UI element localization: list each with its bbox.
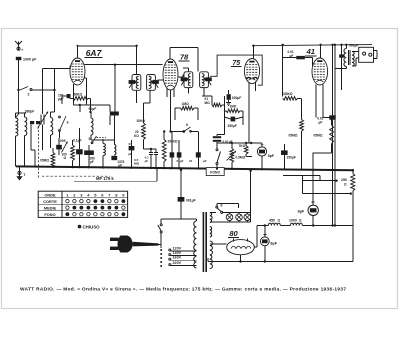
tube 6A7 bbox=[70, 58, 85, 85]
capacitor 0.02uF bias bbox=[329, 115, 335, 119]
svg-text:3: 3 bbox=[67, 121, 69, 125]
chassis bus bbox=[16, 166, 354, 170]
wire 6A7 top cap to IF bbox=[77, 46, 79, 58]
speaker bbox=[359, 47, 374, 62]
capacitor 1000pF antenna series bbox=[16, 57, 22, 60]
svg-text:220V: 220V bbox=[173, 261, 182, 265]
tube 41 bbox=[312, 58, 328, 85]
svg-text:78: 78 bbox=[180, 53, 189, 62]
resistor 1M ohm bbox=[181, 106, 195, 110]
svg-text:Ω: Ω bbox=[278, 219, 281, 223]
svg-text:µF: µF bbox=[90, 160, 94, 164]
capacitor 0.1uF pair a bbox=[170, 152, 175, 157]
svg-text:625KΩ: 625KΩ bbox=[282, 92, 293, 96]
svg-text:05MΩ: 05MΩ bbox=[314, 133, 323, 137]
IF transformer MF2 secondary bbox=[200, 72, 209, 88]
wire grid top line bbox=[43, 68, 71, 70]
tube 75 pins bbox=[248, 83, 250, 91]
svg-text:250µF: 250µF bbox=[228, 124, 237, 128]
resistor 0.5M volume bbox=[230, 149, 234, 163]
svg-text:140V: 140V bbox=[173, 251, 182, 255]
resistor 7K bbox=[244, 146, 248, 154]
svg-text:20KΩ: 20KΩ bbox=[137, 119, 146, 123]
capacitor 250uF right bbox=[281, 150, 288, 155]
resistor 0.5M screen bbox=[300, 120, 304, 132]
IF transformer MF1 secondary bbox=[147, 75, 156, 91]
svg-text:2: 2 bbox=[28, 92, 30, 96]
svg-text:120V: 120V bbox=[173, 246, 182, 250]
svg-text:.005: .005 bbox=[59, 139, 66, 143]
electrolytic 8uF output bbox=[308, 205, 318, 215]
antenna bbox=[18, 45, 20, 51]
top bus B+ bbox=[253, 45, 372, 46]
svg-text:FONO: FONO bbox=[44, 212, 55, 217]
switch 5 with dashes bbox=[91, 142, 93, 144]
tube 80 rectifier bbox=[227, 240, 255, 255]
resistor 50K bbox=[73, 97, 88, 101]
legend chiuso bbox=[78, 225, 82, 229]
wire MF1 secondary down bbox=[149, 90, 151, 103]
svg-text:Ω: Ω bbox=[299, 219, 302, 223]
svg-text:1MΩ: 1MΩ bbox=[182, 102, 190, 106]
capacitor padder 1375pF bbox=[111, 156, 117, 160]
trimmer caps 0.01uF stack bbox=[213, 136, 221, 138]
svg-text:500µF: 500µF bbox=[349, 43, 358, 47]
wire 75 cathode down bbox=[248, 91, 250, 143]
svg-text:50KΩ: 50KΩ bbox=[74, 92, 83, 96]
resistor 20K bbox=[142, 123, 146, 140]
wire 41 cathode bias bbox=[315, 85, 317, 118]
switch 2 bbox=[20, 87, 28, 91]
wire coil tops join bbox=[16, 112, 27, 114]
electrolytic 8uF input bbox=[260, 237, 269, 246]
svg-text:MF 175 k: MF 175 k bbox=[96, 176, 114, 181]
switch phono bbox=[216, 149, 218, 151]
capacitor 001uF mains bbox=[180, 170, 182, 197]
trimmer capacitor 380pF bbox=[40, 115, 42, 125]
wire 78 plate bbox=[178, 76, 183, 78]
svg-text:50µF: 50µF bbox=[89, 107, 97, 111]
svg-text:0.1µF: 0.1µF bbox=[73, 139, 82, 143]
wire MF2 tops bbox=[187, 68, 189, 72]
svg-text:KΩ: KΩ bbox=[134, 134, 139, 138]
capacitor 250uF bbox=[84, 150, 94, 155]
svg-text:1000: 1000 bbox=[289, 219, 297, 223]
diode plates 75 bbox=[247, 77, 251, 79]
capacitor plates pair bbox=[149, 151, 153, 153]
wire 80 output bbox=[254, 246, 257, 248]
svg-text:41: 41 bbox=[306, 47, 315, 56]
svg-text:6: 6 bbox=[186, 123, 188, 127]
resistor 1M diode load bbox=[226, 109, 240, 113]
capacitor 0.1uF osc bbox=[110, 112, 119, 116]
svg-text:Ω: Ω bbox=[344, 183, 347, 187]
svg-text:µF: µF bbox=[145, 159, 149, 163]
svg-text:8µF: 8µF bbox=[270, 242, 277, 246]
wire 80 center tap bbox=[240, 255, 242, 262]
svg-text:160V: 160V bbox=[173, 256, 182, 260]
capacitor 200uF bbox=[227, 94, 231, 100]
bus junction dots bbox=[52, 166, 54, 168]
svg-text:MΩ: MΩ bbox=[134, 161, 140, 165]
svg-text:8µF: 8µF bbox=[268, 154, 275, 158]
wire 78 cathode down bbox=[170, 90, 172, 132]
svg-text:ONDE: ONDE bbox=[44, 192, 56, 197]
svg-text:200µF: 200µF bbox=[232, 96, 241, 100]
switch 8 bbox=[216, 206, 218, 208]
wire 6A7 cathode down bbox=[73, 84, 75, 105]
svg-text:250µF: 250µF bbox=[287, 156, 296, 160]
wire avc vertical bbox=[224, 117, 226, 135]
svg-text:1MΩ: 1MΩ bbox=[230, 105, 237, 109]
svg-text:FONO: FONO bbox=[210, 171, 220, 175]
wire 78 top cap route bbox=[169, 47, 171, 59]
grid route box 75 bbox=[210, 55, 262, 85]
wire HT return bbox=[208, 261, 353, 263]
pilot lamps bbox=[226, 214, 233, 221]
resistor 2500 ohm bbox=[162, 140, 166, 162]
svg-text:8µF: 8µF bbox=[298, 209, 305, 213]
capacitor 250uF diode bbox=[231, 117, 236, 122]
FONO box bbox=[206, 168, 224, 176]
switch 6 bbox=[183, 131, 185, 133]
electrolytic 8uF cathode bbox=[257, 147, 266, 156]
power transformer secondary HT bbox=[210, 241, 213, 269]
mains switch bbox=[160, 224, 162, 226]
svg-text:1000 pF: 1000 pF bbox=[23, 57, 37, 61]
resistor 250 ohm bleeder bbox=[352, 170, 354, 173]
power transformer secondary b bbox=[210, 227, 212, 238]
wire bus drop 625K bbox=[282, 45, 284, 97]
wire lamps to bus bbox=[250, 171, 252, 213]
power transformer core bbox=[203, 212, 205, 272]
svg-text:450: 450 bbox=[269, 219, 275, 223]
antenna coil L1 bbox=[16, 118, 18, 136]
mains plug bbox=[118, 236, 133, 253]
svg-text:7KΩ: 7KΩ bbox=[239, 144, 246, 148]
svg-text:01: 01 bbox=[189, 159, 193, 163]
selector plug dots bbox=[160, 249, 162, 251]
tube 78 bbox=[163, 59, 178, 90]
capacitor 0.1uF single bbox=[196, 152, 201, 157]
wire diode return bbox=[217, 142, 262, 144]
svg-text:380pF: 380pF bbox=[25, 109, 35, 113]
svg-text:MEDIE: MEDIE bbox=[44, 205, 57, 210]
switch 3 bbox=[59, 130, 61, 132]
svg-text:001µF: 001µF bbox=[186, 198, 196, 202]
capacitor blocks input bbox=[30, 121, 34, 124]
top bus dots bbox=[135, 45, 137, 47]
voltage selector taps bbox=[169, 249, 171, 251]
svg-text:75: 75 bbox=[232, 60, 240, 67]
svg-text:Ω: Ω bbox=[64, 156, 67, 160]
svg-text:µF: µF bbox=[203, 159, 207, 163]
wire 6A7 anode down bbox=[85, 77, 87, 79]
wire 6A7 grid bbox=[69, 66, 71, 68]
svg-text:05MΩ: 05MΩ bbox=[289, 133, 298, 137]
power transformer secondary a bbox=[210, 213, 212, 223]
capacitor across primary bbox=[339, 54, 344, 57]
ground symbol bbox=[18, 171, 21, 174]
svg-text:MΩ: MΩ bbox=[205, 101, 211, 105]
svg-text:250: 250 bbox=[341, 178, 347, 182]
wire left verticals bbox=[42, 69, 44, 115]
svg-text:2500Ω: 2500Ω bbox=[168, 140, 178, 144]
wire plug to selector bbox=[159, 244, 162, 246]
svg-text:0.5MΩ: 0.5MΩ bbox=[236, 156, 246, 160]
svg-text:µµF: µµF bbox=[58, 97, 64, 101]
capacitor 0.1uF agc bbox=[129, 146, 135, 150]
svg-text:5: 5 bbox=[89, 137, 91, 141]
coil small osc grid bbox=[91, 118, 93, 135]
wire feedback lines bbox=[283, 175, 320, 177]
MF shield dashed box bbox=[42, 175, 110, 177]
capacitor 100 uuF grid bbox=[67, 94, 71, 98]
resistor 0.5M bias bbox=[51, 153, 55, 168]
tube 78 pins bbox=[166, 88, 168, 97]
svg-text:80: 80 bbox=[229, 229, 238, 238]
wire speaker field drops bbox=[332, 45, 334, 226]
pilot lamp rail bbox=[210, 212, 216, 214]
svg-text:µF: µF bbox=[319, 120, 323, 124]
svg-text:6A7: 6A7 bbox=[86, 48, 103, 58]
wire 41 plate bbox=[320, 45, 322, 58]
band switch table bbox=[38, 191, 127, 217]
tube 75 bbox=[244, 59, 259, 84]
filter line bbox=[257, 225, 268, 227]
oscillator coil L5 bbox=[114, 145, 116, 156]
resistor 100 ohm cathode bbox=[71, 145, 75, 161]
wire 75 plate to bus bbox=[252, 46, 254, 59]
AVC dashed line bbox=[38, 126, 40, 178]
wire antenna down bbox=[18, 60, 20, 90]
wire screen line bbox=[85, 64, 163, 66]
wire 78 grid bbox=[157, 79, 163, 81]
svg-text:8: 8 bbox=[221, 204, 223, 208]
IF transformer MF2 primary bbox=[184, 72, 193, 88]
resistor 0.5M bias 41 bbox=[330, 125, 334, 144]
wire 80 plate bbox=[210, 243, 227, 245]
svg-text:WATT RADIO. — Mod. « Ondina V»: WATT RADIO. — Mod. « Ondina V» e Sirena … bbox=[20, 287, 346, 293]
oscillator coil L4 bbox=[103, 144, 105, 156]
svg-text:01µF: 01µF bbox=[177, 159, 184, 163]
wire osc section bbox=[91, 139, 115, 141]
svg-text:05MΩ: 05MΩ bbox=[40, 159, 49, 163]
power transformer primary bbox=[194, 221, 197, 268]
output transformer T1 bbox=[344, 49, 346, 67]
svg-text:CORTE: CORTE bbox=[43, 199, 57, 204]
IF transformer MF1 primary bbox=[132, 75, 141, 91]
antenna coil L2 bbox=[25, 117, 27, 136]
tuning coil L3 bbox=[51, 118, 53, 136]
wire 50K right down bbox=[88, 97, 91, 99]
svg-text:CHIUSO: CHIUSO bbox=[83, 225, 101, 230]
